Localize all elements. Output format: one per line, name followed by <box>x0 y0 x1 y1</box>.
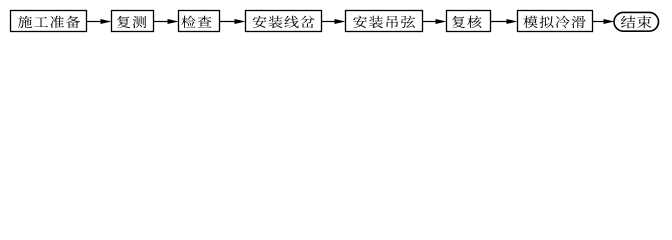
arrow from P7 to next <box>593 19 615 24</box>
arrow from P2 to next <box>154 19 179 24</box>
arrow from P4 to next <box>322 19 346 24</box>
process box2 复测 (re-survey) <box>112 11 154 32</box>
process box6 复核 (re-check) <box>447 11 491 32</box>
process box4 安装线岔 (install overlap) <box>246 11 322 32</box>
process box3 检查 (inspection) <box>179 11 220 32</box>
process box5 安装吊弦 (install droppers) <box>346 11 423 32</box>
arrow from P3 to next <box>220 19 246 24</box>
flowchart: catenary installation process <box>0 0 672 43</box>
arrow from P1 to next <box>87 19 112 24</box>
arrow from P6 to next <box>491 19 518 24</box>
terminator 结束 (end) <box>614 12 659 31</box>
flowchart background <box>0 0 672 43</box>
process box7 模拟冷滑 (simulated cold run) <box>518 11 593 32</box>
arrow from P5 to next <box>423 19 447 24</box>
process box1 施工准备 (construction prep) <box>11 11 87 32</box>
